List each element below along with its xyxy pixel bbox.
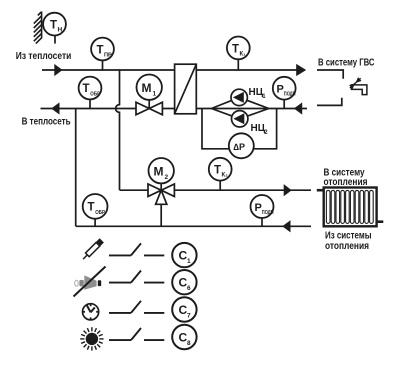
svg-text:7: 7 <box>187 312 191 319</box>
sensor Ppodp2 (heating make-up pressure) <box>251 195 274 218</box>
sensor dP (differential pressure) <box>229 133 254 158</box>
arrow: GVS return flow left <box>294 102 302 114</box>
valve M2 body right triangle <box>161 184 174 197</box>
sensor Tk2 (heating temperature) <box>209 158 232 181</box>
wire: stem of Tobr2 sensor <box>94 213 96 226</box>
wire: GVS supply line to В систему ГВС <box>196 69 298 71</box>
wire: stem of Tk1 sensor <box>237 55 239 70</box>
svg-text:Из теплосети: Из теплосети <box>16 50 72 62</box>
sensor Tpr (supply temperature) <box>91 38 114 61</box>
svg-text:М: М <box>142 81 152 95</box>
sensor Tk1 (GVS temperature) <box>227 37 250 60</box>
wire: primary return line (В теплосеть) <box>41 108 175 110</box>
wire: pump bypass upper path to NC1 <box>211 97 268 108</box>
svg-text:Р: Р <box>277 84 284 96</box>
svg-text:М: М <box>154 165 164 179</box>
svg-text:Т: Т <box>83 83 90 95</box>
valve M2 body left triangle <box>148 184 161 197</box>
svg-text:К₁: К₁ <box>240 51 247 57</box>
pump NC2 <box>232 111 248 127</box>
wire: heating supply line to В систему отопления <box>120 189 312 191</box>
wire: dP left tap <box>202 109 241 149</box>
svg-text:Р: Р <box>255 202 262 214</box>
svg-text:отопления: отопления <box>325 240 369 252</box>
arrow: primary return flow left <box>51 102 59 114</box>
legend circuit C8 <box>172 325 196 349</box>
arrow: primary supply flow right <box>54 64 62 76</box>
svg-text:6: 6 <box>187 285 191 292</box>
arrow: heating supply flow right <box>284 184 292 196</box>
wire: M2 bottom port to heating return <box>160 204 162 226</box>
legend icon: pen (manual mode) <box>81 238 104 261</box>
arrow: GVS supply flow right <box>296 64 306 76</box>
legend icon: muted horn speaker <box>74 267 106 297</box>
wire: stem of Ppodp1 sensor <box>283 95 285 109</box>
svg-text:∆Р: ∆Р <box>234 142 246 152</box>
svg-text:Т: Т <box>232 43 239 55</box>
svg-text:ОБР: ОБР <box>95 210 105 216</box>
sensor Ppodp1 (make-up pressure) <box>273 77 296 100</box>
wire: primary supply line (Из теплосети) <box>42 69 175 71</box>
sensor Tobr1 (return temperature) <box>79 77 102 100</box>
wire: stem of M1 actuator <box>148 98 150 109</box>
valve M1 body left triangle <box>136 102 149 115</box>
svg-text:Т: Т <box>50 20 57 32</box>
wire: stem of Tk2 sensor <box>219 180 221 190</box>
svg-text:1: 1 <box>187 258 191 265</box>
svg-text:В систему ГВС: В систему ГВС <box>318 57 375 69</box>
valve M2 bottom port triangle <box>156 190 167 204</box>
arrow: heating return flow left <box>282 220 290 232</box>
icon: water faucet <box>348 76 367 94</box>
legend switch contact row3 <box>109 301 164 313</box>
svg-text:Н: Н <box>58 27 63 34</box>
svg-text:ПОДП: ПОДП <box>262 210 274 216</box>
svg-text:2: 2 <box>165 174 169 181</box>
svg-text:ОБР: ОБР <box>90 91 100 97</box>
radiator (heating system load) <box>317 188 384 227</box>
wire: GVS return line from faucet to heat exchanger <box>196 108 307 110</box>
wire: dP right tap <box>241 109 277 149</box>
svg-text:отопления: отопления <box>324 176 368 188</box>
legend circuit C7 <box>172 297 196 321</box>
sensor Tobr2 (heating return temperature) <box>83 194 108 219</box>
wire: stem of Tn outdoor sensor <box>54 36 56 44</box>
wire: stem of Tobr1 sensor <box>89 95 91 109</box>
wire: stem of Ppodp2 sensor <box>261 213 263 226</box>
svg-text:Т: Т <box>88 202 95 214</box>
legend switch contact row4 <box>109 328 164 340</box>
actuator M2 <box>149 158 174 183</box>
svg-text:Т: Т <box>97 45 104 57</box>
legend circuit C1 <box>172 243 196 267</box>
label NC2 <box>251 123 269 136</box>
valve M1 body right triangle <box>149 102 162 115</box>
svg-text:1: 1 <box>153 91 157 98</box>
svg-text:8: 8 <box>187 340 191 347</box>
legend circuit C6 <box>172 270 196 294</box>
legend icon: clock (schedule) <box>83 304 99 320</box>
wire: stem of Tpr sensor <box>102 55 104 70</box>
heat exchanger U1 <box>175 64 197 114</box>
svg-text:2: 2 <box>264 130 268 136</box>
svg-text:ПОДП: ПОДП <box>284 92 296 98</box>
wall hatching for outdoor sensor <box>34 12 42 44</box>
wire: vertical branch from supply to heating valve with hop over return <box>116 70 120 190</box>
actuator M1 <box>137 75 162 100</box>
svg-text:В теплосеть: В теплосеть <box>22 115 71 127</box>
wire: heating return line Из системы отопления <box>76 225 311 227</box>
pump NC1 <box>231 89 247 105</box>
svg-text:1: 1 <box>262 94 266 100</box>
svg-text:К₂: К₂ <box>222 173 229 179</box>
sensor Tn (outdoor temperature) <box>43 13 66 36</box>
svg-text:Т: Т <box>214 165 221 177</box>
legend switch contact row1 <box>109 243 164 255</box>
node: GVS supply outlet bracket <box>317 70 343 79</box>
wire: left vertical return riser <box>75 109 77 227</box>
wire: pump bypass lower path to NC2 <box>211 109 268 119</box>
legend icon: sun (day/night) <box>80 327 103 350</box>
wire: stem of M2 actuator <box>160 180 162 190</box>
legend switch contact row2 <box>109 271 164 283</box>
node: GVS return inlet bracket <box>317 98 342 106</box>
label NC1 <box>249 87 267 100</box>
svg-text:ПР: ПР <box>104 53 112 59</box>
